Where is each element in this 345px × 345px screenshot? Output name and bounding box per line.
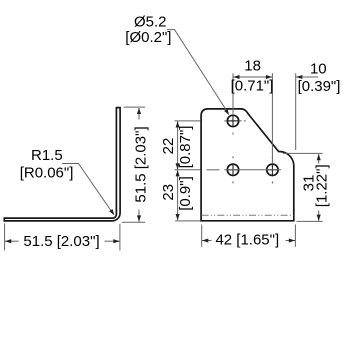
middle row centerline xyxy=(224,169,281,171)
hole middle left xyxy=(227,164,238,175)
extension line left xyxy=(4,224,6,251)
extension line top (to top hole) xyxy=(175,120,201,122)
23 dimension xyxy=(160,170,201,221)
31 dimension xyxy=(283,153,331,221)
extension line bottom xyxy=(297,220,323,222)
extension line left xyxy=(201,224,203,246)
hole middle left center mark xyxy=(227,169,240,171)
vertical 51.5 dimension (left view) xyxy=(122,107,149,222)
svg-text:[1.22"]: [1.22"] xyxy=(314,164,331,207)
dimension line xyxy=(138,108,140,120)
horizontal 51.5 dimension (left view) xyxy=(5,224,120,251)
svg-text:[0.39"]: [0.39"] xyxy=(298,78,341,95)
dimension line xyxy=(5,240,19,242)
left side view L-profile outline xyxy=(4,108,120,221)
42 dimension xyxy=(202,224,296,248)
hole middle right xyxy=(267,164,278,175)
svg-text:23: 23 xyxy=(160,184,177,201)
svg-text:18: 18 xyxy=(244,57,261,74)
svg-text:10: 10 xyxy=(310,60,327,77)
svg-text:Ø5.2: Ø5.2 xyxy=(134,13,167,30)
extension line right xyxy=(119,224,121,250)
hole top xyxy=(227,115,238,126)
extension line from right hole up xyxy=(271,73,273,163)
extension line bottom xyxy=(122,221,145,223)
bend line xyxy=(202,214,294,216)
10 dimension xyxy=(296,60,340,95)
svg-text:22: 22 xyxy=(160,138,177,155)
svg-text:[0.87"]: [0.87"] xyxy=(177,126,194,169)
extension line from top hole up xyxy=(232,73,234,114)
hole middle right center mark xyxy=(266,169,279,171)
extension line from right edge up xyxy=(295,73,297,150)
extension line right xyxy=(294,224,296,246)
svg-text:51.5 [2.03"]: 51.5 [2.03"] xyxy=(132,126,149,202)
svg-text:R1.5: R1.5 xyxy=(31,147,63,164)
extension line top xyxy=(283,152,323,154)
diameter leader xyxy=(167,30,226,111)
svg-text:51.5 [2.03"]: 51.5 [2.03"] xyxy=(23,233,99,250)
extension line bottom xyxy=(175,220,200,222)
svg-text:[0.71"]: [0.71"] xyxy=(231,78,274,95)
middle row extension line to dimension xyxy=(175,169,201,171)
hole top center mark xyxy=(224,120,241,122)
18 dimension xyxy=(231,57,274,94)
R1.5 leader xyxy=(62,164,111,212)
svg-text:[Ø0.2"]: [Ø0.2"] xyxy=(125,29,171,46)
22 dimension xyxy=(160,121,201,170)
svg-text:[R0.06"]: [R0.06"] xyxy=(20,165,74,182)
svg-text:42 [1.65"]: 42 [1.65"] xyxy=(215,232,279,249)
svg-text:[0.9"]: [0.9"] xyxy=(177,176,194,211)
extension line top xyxy=(124,106,146,108)
front view outline xyxy=(201,109,294,221)
